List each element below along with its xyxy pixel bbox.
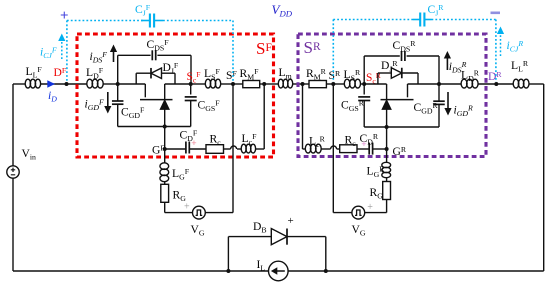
wire: left rail from corner to L_L^F [13,83,25,85]
transistor channel diode F (filled, points up) [160,100,169,109]
node D^F [65,82,69,86]
diode D_B (points right) [271,229,287,245]
svg-text:LDF: LDF [86,66,104,81]
wire: C_DS^R top branch right [407,55,439,57]
wire: gate lead down to G^R [386,127,388,149]
wire (cyan dotted): C_J^R horizontal right part [432,19,496,21]
current arrow i_CJ^F (cyan, up) [61,41,63,59]
resistor R_M^F [243,81,260,88]
wire: junction to L_m [264,83,278,85]
wire: S^R vertical down to V_G line [332,84,334,213]
wire: G^F to C_D^F [165,148,186,150]
capacitor C_GD^R [433,100,445,102]
svg-text:GF: GF [152,144,165,157]
wire (cyan dotted): S^R vertical cyan [332,20,334,83]
wire: C_GS^F lower lead [190,101,192,127]
current arrow i_GD^R (down) [447,92,449,108]
svg-text:SF: SF [226,69,237,82]
wire: bottom rail right of I_L [288,270,544,272]
wire: channel bottom lead F [164,109,166,126]
wire: C_DS^F top branch right [157,54,191,56]
svg-text:VG: VG [191,223,205,238]
wire: G^R to C_D^R [373,148,387,150]
capacitor C_GD^F [112,100,124,102]
resistor R_M^R [309,81,326,88]
wire: hop to L_c^R [321,148,331,150]
svg-text:CDSF: CDSF [147,38,170,53]
svg-text:CGDF: CGDF [121,106,145,121]
wire: device bottom rail R [364,126,439,128]
inductor L_S^R [344,79,350,88]
wire (cyan dotted): C_J^R horizontal left part [333,19,415,21]
wire: right rail up to main line [543,84,545,271]
current arrow i_GD^F (down) [107,92,109,106]
svg-text:CGSR: CGSR [341,99,365,114]
wire: R_c to crossover hop F [224,148,231,150]
inductor L_L^F [25,79,30,88]
wire: main segment drain-side R [408,83,440,85]
inductor L_D^F [87,79,93,88]
wire: S^R to L_S^R [333,83,344,85]
wire: D_J^F branch left riser [135,73,137,84]
wire: C_GS^F upper lead [190,84,192,95]
wire: L_G^F to R_G [164,182,166,185]
svg-text:LLF: LLF [26,65,43,80]
svg-text:Rc: Rc [345,134,357,149]
inductor L_S^F [205,79,210,88]
polarity - (V_DD negative) [491,12,501,15]
wire: R_c^R to crossover hop R [337,148,340,150]
svg-text:IL: IL [257,258,266,273]
svg-text:+: + [184,202,190,213]
wire: L_c^F to riser [255,148,264,150]
svg-text:VG: VG [352,223,366,238]
node G^F [163,147,167,151]
wire (cyan dotted): C_J^F right vertical to S^F [232,21,234,83]
wire: L_D^F to drain junction F [103,83,118,85]
dashed box S^F (red) [77,34,274,157]
wire: gate stub R (turns down) [407,84,409,97]
resistor R_G (R side, vertical) [383,182,391,200]
wire (cyan solid): C_J^F left lead [141,20,150,22]
svg-text:RG: RG [370,186,384,201]
svg-text:LLR: LLR [511,59,529,74]
wire: C_D^F to R_c^F [190,148,207,150]
capacitor C_DS^F [151,50,153,60]
wire: riser from top branch down to S_c^F [190,55,192,84]
wire: D_J^F cathode lead and right riser [162,72,176,74]
svg-text:DB: DB [253,220,267,235]
svg-text:Rc: Rc [210,133,222,148]
diode D_J^R (points right) [391,68,402,79]
wire (cyan dotted): C_J^F left vertical to D^F [66,21,68,83]
wire: D_B left riser [227,237,229,271]
node S_c^F [189,82,193,86]
wire: R_G down and over to V_G [164,202,166,212]
svg-text:LGF: LGF [172,167,190,182]
wire: D_J^R branch left riser [377,73,379,84]
svg-text:ScF: ScF [187,70,201,85]
node: bottom rail junction R [385,125,389,129]
wire: channel bar R [381,99,414,101]
wire: R_M^R to S^R [326,83,333,85]
svg-text:VDD: VDD [272,2,293,19]
svg-text:RMR: RMR [306,67,327,82]
wire: D_J^F anode lead [136,72,151,74]
svg-text:CGDR: CGDR [414,101,439,116]
resistor R_c (F side) [206,145,224,154]
svg-text:SR: SR [304,38,321,57]
node S_c^R [362,82,366,86]
svg-text:RMF: RMF [240,67,260,82]
resistor R_c (R side) [340,145,357,153]
node: internal drain junction F [116,82,120,86]
svg-text:iCJR: iCJR [507,39,524,54]
wire: riser L_c^R up to main rail [302,84,304,149]
svg-text:Lm: Lm [279,66,292,81]
wire: bottom rail left of I_L [13,270,269,272]
wire (cyan dotted): C_J^R vertical to D^R [495,20,497,83]
svg-text:CJR: CJR [428,3,445,18]
transistor channel diode R (filled, points up) [382,100,391,109]
svg-text:iDSF: iDSF [90,50,108,65]
node G^R [385,147,389,151]
wire: V_G to S^R vertical [333,212,352,214]
current arrow i_DS^R (up) [446,59,448,71]
wire: D^R to L_L^R [496,83,513,85]
inductor L_m [278,79,283,88]
wire: main segment source-side R [364,83,386,85]
svg-text:SR: SR [329,69,341,82]
svg-text:LSR: LSR [344,68,361,83]
svg-text:iGDR: iGDR [454,104,474,119]
wire: R_M^F to junction [260,83,265,85]
svg-text:+: + [60,8,69,24]
resistor R_G (F side, vertical) [161,184,169,202]
source V_G (R side) [352,206,365,219]
wire: left rail down to V_in [12,84,14,166]
wire: main segment source-side F [165,83,191,85]
wire (cyan dotted): C_J^F horizontal left part [67,20,145,22]
node: internal drain junction R [437,82,441,86]
node D^R [494,82,498,86]
wire: D_J^R cathode lead and right riser [402,72,418,74]
inductor L_c^R [305,144,311,153]
wire: C_GS^R upper lead [363,84,365,95]
wire: R_G down and over to V_G (R) [386,200,388,213]
node: bottom rail junction F [163,125,167,129]
wire: junction to R_M^R [303,83,310,85]
wire hop over S^R line [331,146,337,149]
current arrow i_D [47,80,55,87]
svg-text:LcR: LcR [309,135,326,150]
svg-text:Vin: Vin [22,147,37,162]
capacitor C_J^F (cyan) [149,14,151,28]
source V_G (F side) [193,206,206,219]
wire: D^F to L_D^F [67,83,88,85]
inductor L_G^F (vertical) [160,163,169,170]
wire: device bottom rail F [118,126,191,128]
inductor L_G^R (vertical) [382,162,391,167]
wire (cyan dotted): C_J^F horizontal right part [163,20,233,22]
wire: main segment drain-side F [118,83,146,85]
wire: L_G^R to R_G [386,178,388,182]
wire: gate stub F (turns down) [144,84,146,97]
capacitor C_GS^R [358,96,370,98]
svg-text:CDSR: CDSR [393,39,417,54]
capacitor C_J^R (cyan) [419,13,421,27]
wire (cyan solid): C_J^R left lead [413,19,420,21]
node: D_B right tap [324,269,328,273]
wire: L_S^R to S_c^R [360,83,364,85]
capacitor C_D^F [185,142,187,154]
svg-text:SF: SF [256,39,272,58]
svg-text:+: + [288,215,294,227]
wire: gate lead down to G^F [164,127,166,150]
wire: L_L^R to right corner [529,83,544,85]
inductor L_D^R [461,79,467,88]
svg-text:DJR: DJR [381,59,398,74]
wire: gate drive lead below G^R [386,149,388,163]
wire: C_DS^F top branch left [118,54,151,56]
current arrow i_DS^F (up) [113,52,115,62]
wire: D_B right riser [325,237,327,271]
wire: V_in down to bottom corner [12,178,14,271]
wire: S_c^F to L_S^F [191,83,206,85]
node: D_B left tap [226,269,230,273]
wire: C_GD^F lower lead [117,104,119,126]
dashed box S^R (purple) [298,34,486,157]
wire: hop to L_c^F [237,148,241,150]
node S^F [231,82,235,86]
wire (cyan solid): C_J^F right lead [154,20,163,22]
diode D_J^F (points left) [151,68,162,79]
wire: S^F to R_M^F [233,83,243,85]
wire: S_c^R riser up [363,56,365,84]
inductor L_L^R [513,79,519,88]
wire: L_S^F to S^F [221,83,234,85]
wire: C_D^R to R_c^R [357,148,369,150]
wire: C_GD^F upper lead [117,84,119,101]
wire: C_GD^R upper lead [438,84,440,101]
wire: S^F vertical down to V_G line [232,84,234,213]
source V_in [7,166,19,178]
wire: L_L^F to node D^F [40,83,66,85]
svg-text:iGDF: iGDF [85,98,105,113]
wire hop over S^F line [231,146,237,149]
wire: channel top lead R [386,84,388,100]
wire: channel top lead F [164,84,166,100]
wire: riser L_c^F up to main rail [263,84,265,149]
wire: D_B cathode lead [287,236,326,238]
node: L_m / R_M^R junction [301,82,305,86]
capacitor C_DS^R [401,51,403,61]
wire: channel bottom lead R [386,109,388,127]
wire: C_GD^R lower lead [438,104,440,127]
wire: L_D^R to D^R [478,83,496,85]
node S^R [331,82,335,86]
wire: channel bar F [140,99,173,101]
capacitor C_GS^F [185,96,197,98]
svg-text:CGSF: CGSF [198,99,221,114]
current arrow i_CJ^R (cyan, up) [500,34,502,56]
wire: drain riser F up [117,55,119,84]
wire: C_GS^R lower lead [363,101,365,127]
inductor L_c^F [241,144,246,153]
wire: C_DS^R top branch left [364,55,400,57]
svg-text:+: + [367,202,373,213]
wire: L_m to junction R [293,83,303,85]
svg-text:+: + [191,139,196,149]
wire (cyan solid): C_J^R right lead [424,19,431,21]
wire: riser from top branch down to drain R [438,56,440,84]
svg-text:iCJF: iCJF [40,46,57,61]
wire: D_J^R anode lead [378,72,391,74]
wire: D_B anode lead [228,236,271,238]
wire: V_G to S^F vertical [205,212,233,214]
wire: gate drive lead below G^F [164,149,166,163]
wire: drain R to L_D^R [439,83,461,85]
capacitor C_D^R [368,143,370,155]
svg-text:iD: iD [48,89,57,104]
wire: L_c^R to riser R [303,148,306,150]
node: R_M^F / L_m junction [262,82,266,86]
svg-text:CJF: CJF [135,3,151,18]
svg-text:DF: DF [54,66,67,79]
source I_L (current source) [269,261,289,281]
